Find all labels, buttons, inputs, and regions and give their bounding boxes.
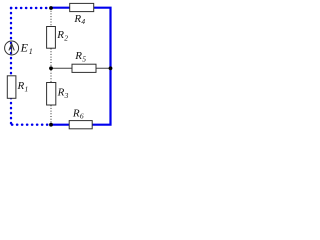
node C junction dot [49,123,53,127]
node D junction dot (right edge) [109,66,113,70]
svg-text:R3: R3 [57,86,69,99]
resistor R1 [7,76,16,99]
wire: blue top segment node A to R4 [51,7,70,9]
svg-text:R4: R4 [73,13,85,26]
svg-text:R1: R1 [17,80,29,93]
wire: blue bottom segment R6 to node C [51,124,70,126]
wire: dotted blue left edge (net through E1 and R1) [10,8,12,125]
resistor R3 [47,83,56,106]
node B junction dot [49,66,53,70]
wire: dotted blue bottom-left segment from node C [12,123,48,125]
wire: thin middle branch node B to right edge through R5 [51,67,111,69]
node A junction dot [49,6,53,10]
svg-text:E1: E1 [20,41,33,56]
svg-text:R6: R6 [72,107,84,120]
resistor R6 [69,121,92,129]
svg-text:R5: R5 [74,50,86,63]
resistor R5 [72,64,96,72]
svg-text:R2: R2 [56,29,68,42]
wire: blue from R4 right, down right edge, along bottom to R6 [92,8,111,125]
wire: dotted blue top-left segment to node A [11,7,49,9]
resistor R4 [70,3,94,11]
source E1 (circle with up arrow) [5,41,19,55]
wire: dotted gray middle column (node A to node C through R2, R3) [50,8,52,125]
resistor R2 [47,27,56,49]
